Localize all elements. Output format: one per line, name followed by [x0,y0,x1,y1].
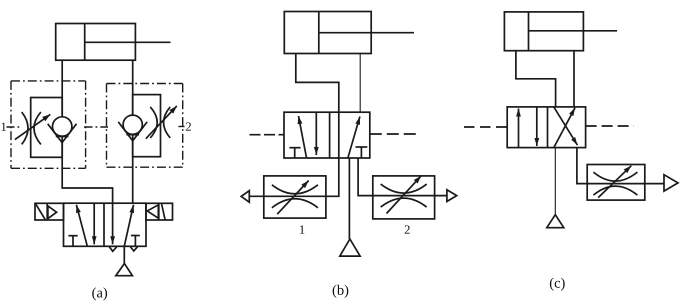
throttle 1 adjust arrow [277,181,309,215]
check valve 1 [48,117,77,143]
valve C left box down arrow [536,108,538,147]
valve A exhaust chevron left [109,247,116,252]
throttle restrictor arcs 1 [22,112,28,144]
pressure source line B [348,158,350,239]
wire cylinder C right port to valve C [573,51,575,107]
valve A right box blocked port T [131,236,140,247]
exhaust triangle b-right [447,190,457,202]
directional valve C body [507,107,585,148]
pressure source triangle B [340,239,360,256]
wire cylinder B right port to valve B [359,54,361,113]
valve B right box diagonal arrow [348,117,360,158]
valve A right box diagonal arrow [124,205,133,246]
exhaust triangle b-left [241,191,249,203]
cylinder C (part c) [504,12,617,51]
exhaust triangle c-right [664,175,678,191]
pressure source line A [123,246,125,263]
node chain line left of assembly 1 [7,126,23,128]
valve B left box diagonal arrow [299,116,307,158]
node chain line right of assembly 2 [179,126,185,128]
pressure source line C [554,148,556,215]
svg-text:2: 2 [185,120,191,134]
svg-text:(c): (c) [549,276,565,292]
throttle valve bypass rectangle 1 [31,98,63,158]
throttle 2 adjust arrow [387,176,422,214]
pilot dashed line C right [586,125,634,127]
throttle adjust arrow 1 [15,114,50,139]
throttle c arcs [593,172,637,181]
throttle 2 arcs [381,184,427,193]
valve C crossed arrow down-right [554,107,578,145]
valve B left box down arrow [315,112,317,155]
valve A left box down arrow [93,203,95,244]
node chain line between assemblies [84,126,108,128]
svg-text:(a): (a) [92,285,108,301]
pilot dashed line B right [370,133,419,135]
valve B left box blocked port T [289,148,300,158]
svg-text:1: 1 [299,223,305,237]
solenoid pilot actuator right [146,203,173,220]
valve C crossed arrow up-right [554,108,575,148]
wire valve B right port to throttle 2 [358,158,447,196]
valve A exhaust chevron right [130,247,137,251]
throttle restrictor arcs 2 [150,107,157,138]
solenoid pilot actuator left [35,203,64,220]
throttle adjust arrow 2 [146,106,177,139]
svg-text:(b): (b) [332,283,349,299]
directional valve B body [284,112,370,158]
wire valve C right port to throttle [577,148,664,184]
pressure source triangle A [116,264,133,276]
throttle c adjust arrow [598,166,631,198]
valve C left box up arrow [518,109,520,148]
valve B position divider [329,112,331,158]
valve A position divider [103,203,105,246]
wire cylinder A1 left port to check valve 1 [61,60,63,118]
valve B right box blocked port T [356,147,368,158]
wire check valve 2 to valve A right box [132,141,134,204]
wire cylinder A1 right port to check valve 2 [132,60,134,116]
throttle valve 1 box (part b) [264,176,326,218]
flow control assembly 1 enclosure (chain line) [11,81,86,168]
pilot dashed line C left [464,126,507,128]
wire cylinder B left port through valve B to throttle 1 [249,54,338,197]
directional valve A body [64,203,147,246]
wire check valve 1 jog into valve A right box (down arrow) [62,143,112,237]
cylinder A1 (double-acting, part a) [56,24,171,61]
valve A left box blocked port T [68,236,77,247]
svg-text:1: 1 [0,120,6,134]
throttle 1 arcs [272,185,318,194]
throttle valve bypass rectangle 2 [133,95,161,157]
pilot dashed line B left [250,134,285,136]
wire cylinder C left port jog to valve C [516,51,556,107]
flow control assembly 2 enclosure (chain line) [107,84,183,168]
svg-text:2: 2 [404,223,410,237]
pressure source triangle C [547,215,564,228]
throttle valve 2 box (part b) [373,176,435,219]
check valve 2 [118,115,147,141]
valve C position divider [547,107,549,148]
throttle valve box (part c) [587,165,645,201]
cylinder B (part b) [284,12,414,54]
valve A left box diagonal arrow [76,205,87,246]
